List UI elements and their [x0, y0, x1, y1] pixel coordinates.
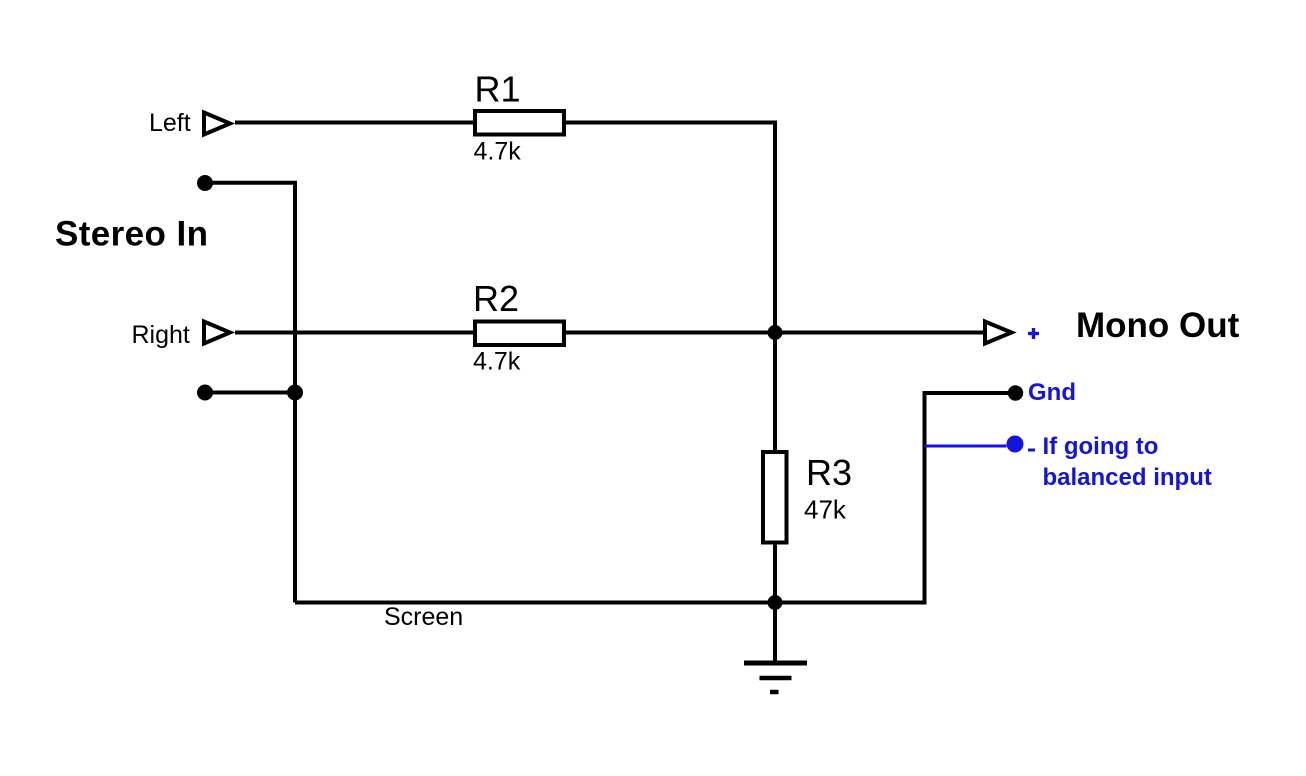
svg-text:4.7k: 4.7k — [473, 348, 521, 376]
svg-text:balanced input: balanced input — [1043, 464, 1212, 491]
svg-text:If going to: If going to — [1043, 433, 1159, 460]
svg-text:Right: Right — [132, 321, 190, 349]
svg-text:Mono Out: Mono Out — [1076, 306, 1240, 345]
svg-text:R1: R1 — [475, 69, 521, 110]
svg-text:Stereo In: Stereo In — [55, 215, 208, 254]
svg-text:R2: R2 — [473, 278, 519, 319]
svg-text:Gnd: Gnd — [1028, 379, 1076, 406]
svg-text:47k: 47k — [804, 495, 847, 525]
svg-text:Screen: Screen — [384, 603, 463, 631]
svg-text:R3: R3 — [806, 452, 852, 493]
svg-text:Left: Left — [149, 109, 191, 137]
svg-text:4.7k: 4.7k — [474, 138, 522, 166]
